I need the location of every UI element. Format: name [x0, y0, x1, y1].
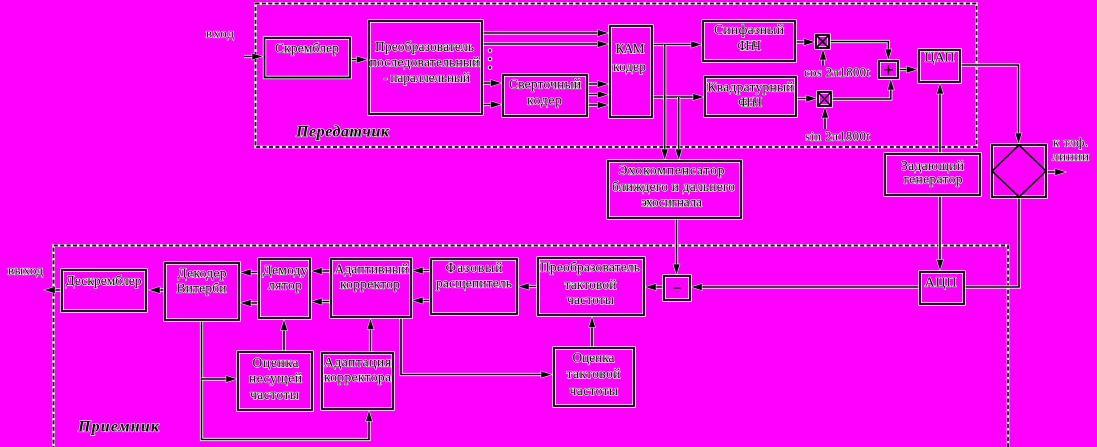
wire: hybrid to telephone line: [1046, 170, 1065, 173]
wire: conv coder to QAM line 2: [587, 93, 607, 96]
wire: decoder branch to carrier estimator: [202, 377, 236, 380]
wire: equalizer to clock estimator: [401, 317, 551, 375]
block: carrier frequency estimator: [238, 352, 312, 410]
wire: QAM to quadrature LPF: [652, 95, 703, 98]
svg-text:ЦАП: ЦАП: [925, 51, 955, 66]
svg-text:частоты: частоты: [570, 383, 619, 398]
wire: descrambler to output: [46, 288, 63, 291]
svg-text:эхосигнала: эхосигнала: [641, 195, 702, 210]
svg-text:тактовой: тактовой: [567, 366, 621, 381]
svg-text:Квадратурный: Квадратурный: [708, 80, 794, 95]
wire: converter to QAM coder line 1: [482, 31, 607, 34]
wire: hybrid bottom to ADC: [964, 197, 1019, 287]
block: in-phase LPF: [703, 21, 795, 61]
block: Viterbi decoder: [165, 263, 239, 320]
wire: input to scrambler: [244, 55, 262, 58]
wire: master oscillator to DAC: [938, 85, 941, 155]
svg-text:Скремблер: Скремблер: [275, 41, 339, 56]
block: adaptive equalizer: [331, 259, 411, 317]
svg-text:несущей: несущей: [249, 371, 302, 386]
block: master oscillator: [885, 154, 980, 195]
svg-text:Демоду: Демоду: [263, 263, 308, 278]
svg-text:sin 2π1800t: sin 2π1800t: [805, 129, 870, 144]
wire: multiplier 1 to adder: [829, 42, 888, 59]
wire: echo canceller tap 1: [663, 45, 666, 159]
block: echo canceller: [608, 161, 741, 218]
wire: clock converter to phase splitter: [520, 285, 539, 288]
wire: phase splitter to equalizer upper: [414, 269, 432, 272]
block: DAC: [919, 50, 960, 82]
wire: echo canceller tap 2: [677, 97, 680, 159]
wire: clock estimator to clock converter: [590, 318, 593, 348]
wire: echo canceller to subtractor: [675, 218, 678, 274]
svg-text:корректор: корректор: [340, 277, 400, 292]
wire: multiplier 2 to adder: [831, 81, 891, 100]
block: serial-parallel converter: [369, 21, 482, 114]
multiplier M2: [818, 92, 831, 106]
label: input: [206, 26, 234, 41]
hybrid (line transformer): [992, 145, 1046, 197]
wire: corrector adaptation to equalizer: [369, 320, 372, 353]
svg-text:кодер: кодер: [613, 59, 646, 74]
adder: [879, 61, 898, 78]
receiver dashed frame: [54, 246, 1009, 447]
svg-text:частоты: частоты: [567, 292, 614, 307]
svg-text:Сверточный: Сверточный: [509, 77, 581, 92]
wire: demodulator to Viterbi decoder upper: [242, 271, 260, 274]
multiplier M1: [816, 35, 829, 48]
block: convolutional coder: [503, 75, 587, 116]
wire: equalizer to demodulator upper: [313, 269, 332, 272]
wire: in-phase LPF to multiplier 1: [795, 40, 814, 43]
block: clock frequency converter: [538, 258, 644, 315]
wire: converter to QAM coder line 2: [482, 42, 607, 45]
wire: master oscillator to ADC: [938, 195, 941, 269]
svg-text:Адаптивный: Адаптивный: [335, 262, 409, 277]
block: corrector adaptation: [322, 353, 393, 409]
svg-text:Адаптация: Адаптация: [324, 355, 391, 370]
svg-text:Декодер: Декодер: [178, 266, 227, 281]
label: Receiver: [77, 419, 160, 436]
svg-text:Эхокомпенсатор: Эхокомпенсатор: [619, 163, 725, 178]
svg-text:Синфазный: Синфазный: [714, 22, 784, 37]
block: phase splitter: [431, 259, 517, 314]
wire: equalizer to demodulator lower: [313, 300, 332, 303]
svg-text:корректора: корректора: [324, 370, 391, 385]
block: QAM coder: [610, 26, 652, 117]
wire: carrier estimator to demodulator: [282, 321, 285, 352]
svg-text:выход: выход: [8, 263, 43, 278]
svg-text:линии: линии: [1052, 149, 1089, 164]
block: demodulator: [259, 259, 310, 318]
wire: phase splitter to equalizer lower: [414, 299, 432, 302]
wire: cos carrier into multiplier 1: [821, 51, 824, 66]
wire: subtractor to clock converter: [647, 285, 665, 288]
svg-text:частоты: частоты: [250, 387, 299, 402]
transmitter dashed frame: [256, 4, 977, 148]
label: cos 2pi1800t: [804, 65, 870, 80]
label: output: [8, 263, 43, 278]
wire: conv coder to QAM line 1: [587, 82, 607, 85]
svg-text:последовательный: последовательный: [370, 55, 480, 70]
wire: adder to DAC: [898, 68, 916, 71]
svg-text:ФНЧ: ФНЧ: [737, 38, 761, 53]
wire: converter to conv coder line 1: [482, 81, 500, 84]
wire: Viterbi decoder to descrambler: [151, 288, 166, 291]
block: descrambler: [62, 270, 146, 311]
wire: converter to conv coder line 2: [482, 103, 500, 106]
svg-text:расщепитель: расщепитель: [436, 276, 512, 291]
svg-text:Приемник: Приемник: [77, 419, 160, 436]
svg-text:cos 2π1800t: cos 2π1800t: [804, 65, 870, 80]
svg-text:Передатчик: Передатчик: [295, 124, 390, 141]
block: ADC: [920, 272, 964, 304]
svg-text:Оценка: Оценка: [573, 350, 615, 365]
label: to telephone line: [1052, 135, 1089, 164]
svg-text:Фазовый: Фазовый: [446, 260, 503, 275]
wire: demodulator to Viterbi decoder lower: [242, 301, 260, 304]
block: clock frequency estimator: [554, 348, 634, 406]
wire: conv coder to QAM line 3: [587, 103, 607, 106]
svg-text:- параллельный: - параллельный: [383, 70, 470, 85]
wire: decoder feedback to corrector adaptation: [202, 320, 370, 440]
svg-text:Дескремблер: Дескремблер: [66, 273, 142, 288]
svg-text:КАМ: КАМ: [616, 41, 645, 56]
subtractor: [664, 276, 690, 300]
label: sin 2pi1800t: [805, 129, 870, 144]
svg-text:тактовой: тактовой: [565, 277, 617, 292]
wire: scrambler to converter: [350, 58, 366, 61]
svg-text:АЦП: АЦП: [925, 276, 957, 291]
svg-text:лятор: лятор: [268, 278, 302, 293]
label: Transmitter: [295, 124, 390, 141]
svg-text:вход: вход: [206, 26, 234, 41]
svg-text:ближдего и дальнего: ближдего и дальнего: [612, 179, 735, 194]
svg-text:кодер: кодер: [527, 93, 562, 108]
wire: QAM to in-phase LPF: [652, 43, 701, 46]
wire: sin carrier into multiplier 2: [823, 109, 826, 130]
svg-text:Преобразователь: Преобразователь: [540, 260, 640, 275]
block: quadrature LPF: [705, 77, 796, 116]
wire: ADC to subtractor: [693, 285, 921, 288]
svg-text:Оценка: Оценка: [253, 355, 299, 370]
svg-text:генератор: генератор: [904, 172, 963, 187]
block: scrambler: [265, 38, 351, 78]
svg-text:Витерби: Витерби: [177, 281, 227, 296]
svg-text:к тлф.: к тлф.: [1053, 135, 1088, 150]
ellipsis dots between converter and QAM: [488, 49, 492, 70]
svg-text:ФНЧ: ФНЧ: [738, 95, 762, 110]
svg-text:Преобразователь: Преобразователь: [375, 39, 474, 54]
wire: quadrature LPF to multiplier 2: [796, 97, 816, 100]
wire: DAC to hybrid: [960, 65, 1019, 143]
